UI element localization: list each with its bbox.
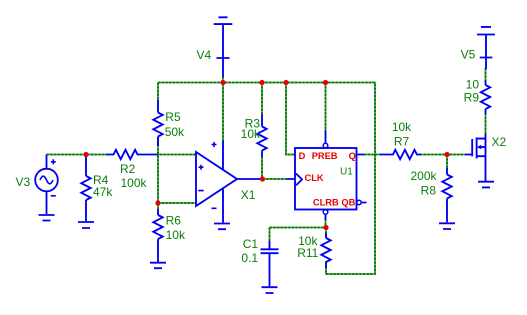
svg-text:R6: R6 — [166, 214, 182, 228]
svg-text:10k: 10k — [166, 228, 186, 242]
svg-text:CLK: CLK — [305, 173, 324, 183]
svg-text:10k: 10k — [241, 127, 261, 141]
svg-text:CLRB: CLRB — [313, 198, 339, 208]
svg-text:100k: 100k — [121, 176, 148, 190]
svg-text:X1: X1 — [241, 188, 256, 202]
svg-text:QB: QB — [341, 198, 355, 208]
svg-text:Q: Q — [349, 151, 356, 161]
svg-text:U1: U1 — [340, 167, 353, 178]
svg-text:R7: R7 — [394, 135, 410, 149]
svg-text:V5: V5 — [461, 48, 476, 62]
svg-text:10k: 10k — [392, 120, 412, 134]
svg-text:R8: R8 — [421, 184, 437, 198]
svg-text:R11: R11 — [297, 246, 318, 260]
svg-text:0.1: 0.1 — [241, 251, 258, 265]
svg-text:D: D — [299, 151, 306, 161]
svg-text:R2: R2 — [120, 162, 136, 176]
svg-text:200k: 200k — [410, 169, 437, 183]
svg-text:V4: V4 — [197, 48, 212, 62]
svg-text:X2: X2 — [492, 135, 507, 149]
svg-text:47k: 47k — [93, 185, 113, 199]
svg-text:50k: 50k — [165, 125, 185, 139]
svg-text:R5: R5 — [165, 110, 181, 124]
svg-text:R9: R9 — [464, 91, 480, 105]
svg-text:10: 10 — [466, 78, 480, 92]
svg-text:PREB: PREB — [312, 151, 338, 161]
svg-text:C1: C1 — [243, 237, 259, 251]
svg-text:V3: V3 — [16, 175, 31, 189]
